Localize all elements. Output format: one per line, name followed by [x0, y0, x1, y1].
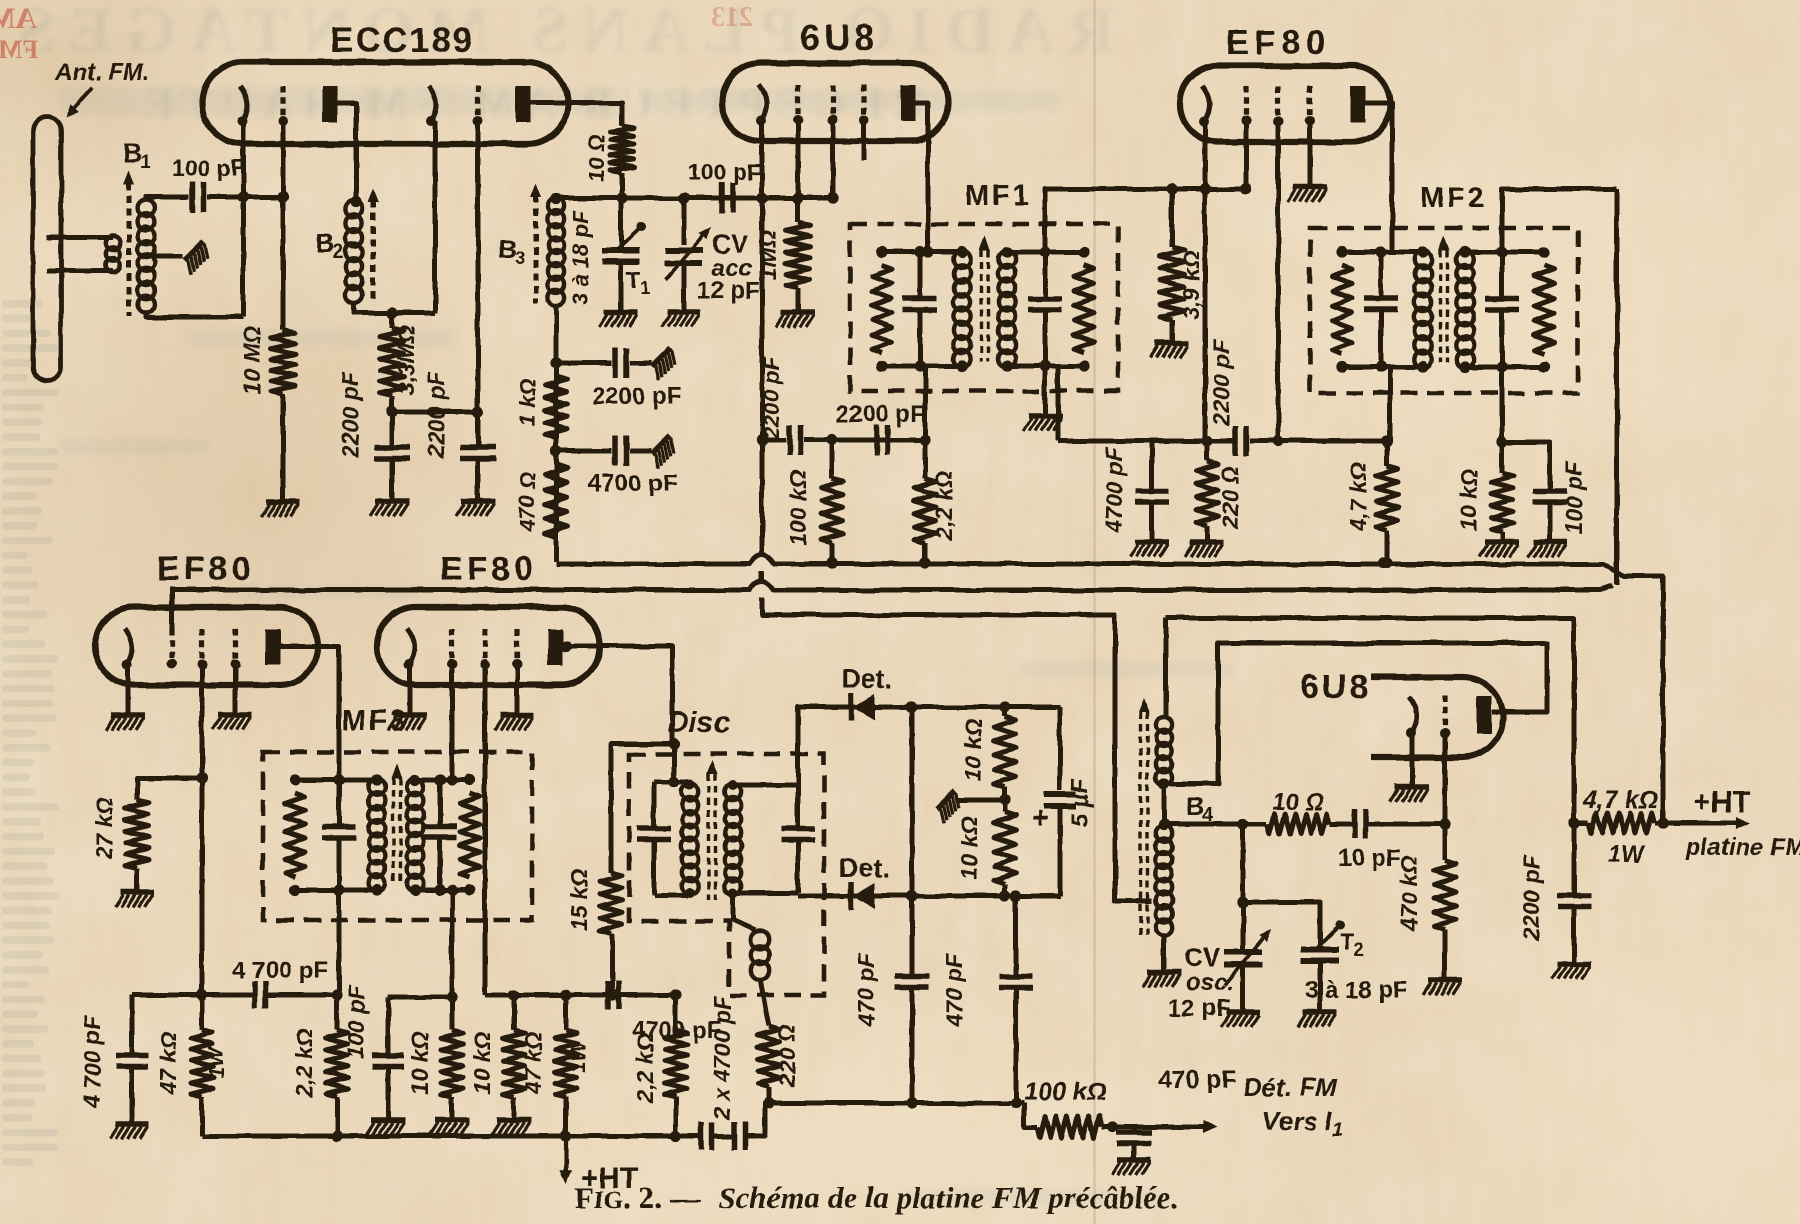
svg-text:B: B: [316, 228, 335, 258]
svg-text:2200 pF: 2200 pF: [592, 383, 681, 410]
svg-text:12 pF: 12 pF: [1168, 995, 1231, 1022]
svg-text:FIG. 2. — Schéma de la plat: FIG. 2. — Schéma de la platine FM précâb…: [575, 1180, 1178, 1215]
svg-text:100 pF: 100 pF: [343, 985, 369, 1059]
svg-text:Ant. FM.: Ant. FM.: [54, 59, 150, 86]
svg-text:RADIO PLANS MONTAGES: RADIO PLANS MONTAGES: [5, 0, 1115, 67]
svg-text:5 µF: 5 µF: [1067, 777, 1094, 827]
svg-text:2200 pF: 2200 pF: [836, 401, 925, 428]
svg-text:+HT: +HT: [1693, 786, 1751, 819]
svg-text:15 kΩ: 15 kΩ: [566, 869, 592, 932]
svg-text:3,3MΩ: 3,3MΩ: [393, 325, 419, 394]
svg-text:470 pF: 470 pF: [1158, 1066, 1237, 1094]
svg-text:470 kΩ: 470 kΩ: [1396, 855, 1422, 932]
svg-text:470 Ω: 470 Ω: [515, 472, 540, 533]
svg-text:4 700 pF: 4 700 pF: [232, 957, 328, 984]
svg-text:1MΩ: 1MΩ: [755, 230, 781, 280]
svg-text:1 kΩ: 1 kΩ: [515, 378, 540, 426]
svg-text:Det.: Det.: [841, 664, 892, 694]
svg-text:FM: FM: [0, 35, 38, 64]
svg-text:4700 pF: 4700 pF: [588, 470, 677, 497]
svg-text:2,2 kΩ: 2,2 kΩ: [291, 1028, 317, 1098]
svg-text:EF80: EF80: [1226, 24, 1331, 62]
svg-text:100 pF: 100 pF: [172, 155, 245, 181]
svg-text:2200 pF: 2200 pF: [1518, 854, 1544, 942]
svg-text:platine FM: platine FM: [1685, 834, 1800, 861]
svg-text:2,2 kΩ: 2,2 kΩ: [632, 1033, 658, 1103]
svg-text:MF2: MF2: [1420, 182, 1487, 214]
svg-text:47 kΩ: 47 kΩ: [520, 1032, 546, 1096]
svg-text:2200 pF: 2200 pF: [759, 356, 784, 439]
svg-text:10 Ω: 10 Ω: [1272, 789, 1324, 816]
svg-text:MF1: MF1: [965, 180, 1032, 212]
svg-text:EF80: EF80: [440, 550, 537, 588]
svg-text:Det.: Det.: [839, 853, 890, 883]
svg-text:2,2 kΩ: 2,2 kΩ: [931, 470, 957, 540]
svg-text:10 kΩ: 10 kΩ: [960, 719, 986, 782]
svg-text:B: B: [1186, 791, 1205, 821]
svg-text:10 MΩ: 10 MΩ: [239, 325, 265, 394]
svg-text:10 kΩ: 10 kΩ: [469, 1032, 495, 1095]
svg-text:220 Ω: 220 Ω: [774, 1024, 800, 1088]
svg-text:47 kΩ: 47 kΩ: [155, 1032, 181, 1096]
svg-text:470 pF: 470 pF: [853, 953, 879, 1028]
svg-text:AM: AM: [0, 2, 37, 35]
svg-text:4700 pF: 4700 pF: [1101, 446, 1127, 534]
svg-text:4,7 kΩ: 4,7 kΩ: [1345, 462, 1371, 532]
svg-text:2: 2: [1354, 940, 1364, 960]
svg-text:2 x 4700 pF: 2 x 4700 pF: [709, 995, 735, 1121]
svg-text:10 pF: 10 pF: [1338, 845, 1401, 872]
svg-text:osc.: osc.: [1186, 969, 1234, 996]
svg-text:3: 3: [515, 248, 526, 269]
svg-text:Disc: Disc: [667, 706, 731, 739]
svg-text:Vers I: Vers I: [1262, 1106, 1333, 1136]
svg-text:CV: CV: [1184, 942, 1221, 972]
svg-text:3 à 18 pF: 3 à 18 pF: [1305, 977, 1408, 1004]
svg-text:2200 pF: 2200 pF: [337, 371, 363, 459]
svg-text:1: 1: [140, 152, 151, 173]
svg-text:10 Ω: 10 Ω: [584, 134, 609, 182]
svg-text:6U8: 6U8: [1300, 668, 1371, 706]
svg-text:1: 1: [1332, 1120, 1343, 1141]
svg-text:6U8: 6U8: [800, 17, 878, 58]
svg-text:EF80: EF80: [157, 550, 254, 588]
svg-text:1W: 1W: [1608, 841, 1646, 868]
svg-text:4 700 pF: 4 700 pF: [79, 1015, 105, 1109]
svg-text:470 pF: 470 pF: [941, 953, 967, 1028]
svg-text:100 pF: 100 pF: [1561, 461, 1587, 535]
svg-text:1W: 1W: [205, 1045, 228, 1079]
svg-text:10 kΩ: 10 kΩ: [956, 817, 982, 880]
svg-text:3,9 kΩ: 3,9 kΩ: [1178, 250, 1204, 319]
svg-text:4,7 kΩ: 4,7 kΩ: [1582, 786, 1658, 814]
svg-text:220 Ω: 220 Ω: [1217, 466, 1243, 530]
svg-text:100 kΩ: 100 kΩ: [1024, 1078, 1106, 1106]
svg-text:27 kΩ: 27 kΩ: [91, 797, 117, 861]
svg-text:100 pF: 100 pF: [688, 159, 761, 185]
svg-text:12 pF: 12 pF: [697, 277, 760, 304]
svg-text:+: +: [1032, 802, 1050, 835]
svg-text:1W: 1W: [567, 1039, 590, 1073]
svg-text:213: 213: [711, 2, 753, 33]
svg-text:2: 2: [333, 242, 344, 263]
svg-text:ECC189: ECC189: [330, 21, 474, 60]
svg-text:T: T: [626, 267, 641, 294]
svg-text:2200 pF: 2200 pF: [1208, 339, 1234, 427]
svg-text:B: B: [498, 234, 517, 264]
svg-text:10 kΩ: 10 kΩ: [1456, 469, 1482, 532]
svg-text:Dét. FM: Dét. FM: [1243, 1072, 1338, 1102]
svg-text:100 kΩ: 100 kΩ: [785, 470, 811, 546]
svg-text:2200 pF: 2200 pF: [423, 371, 449, 459]
svg-text:1: 1: [640, 278, 650, 298]
svg-text:3 à 18 pF: 3 à 18 pF: [568, 210, 593, 305]
svg-text:MF3: MF3: [342, 705, 409, 737]
svg-text:B: B: [123, 138, 142, 168]
svg-text:T: T: [1340, 929, 1355, 956]
svg-text:10 kΩ: 10 kΩ: [407, 1032, 433, 1095]
